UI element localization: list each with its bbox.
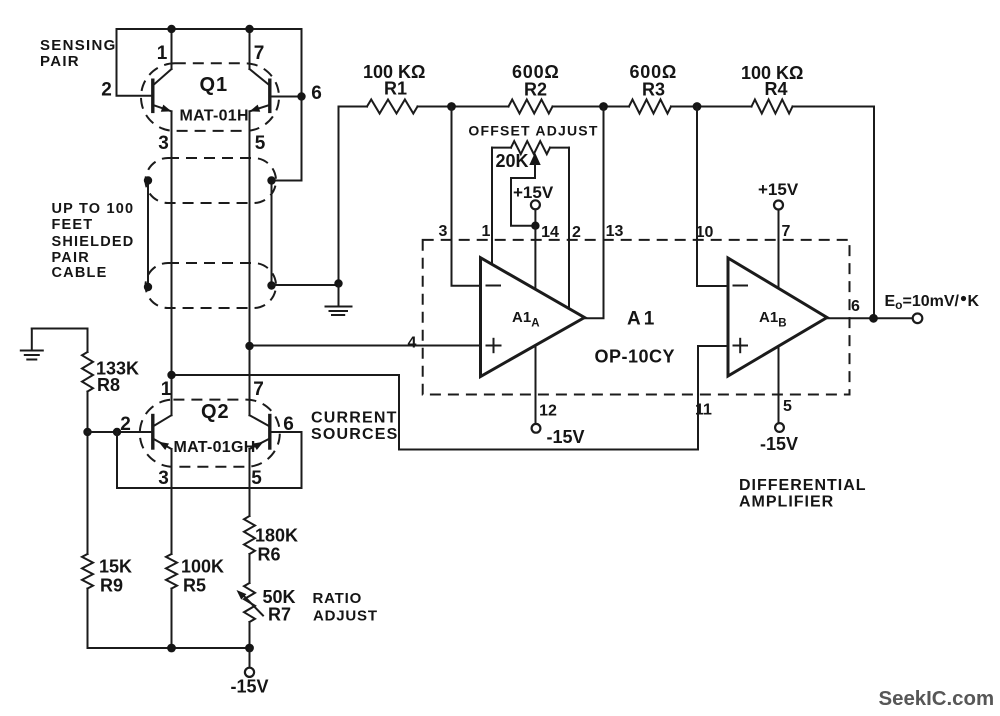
svg-text:SHIELDED: SHIELDED	[52, 234, 135, 250]
ground (shield)	[326, 284, 352, 316]
dashed box A1 OP-10CY	[423, 240, 850, 395]
svg-text:15K: 15K	[99, 557, 132, 577]
svg-text:AMPLIFIER: AMPLIFIER	[739, 494, 834, 511]
transistor Q1 left half: base bar	[151, 80, 154, 111]
junction: shield loop1 right	[267, 176, 275, 184]
junction: shield loop2 right	[267, 281, 275, 289]
transistor Q1 right half: base bar	[268, 80, 271, 111]
wire: right pair conductor (Q1 pin5 down to Q2 collector pin7)	[249, 111, 251, 415]
svg-text:5: 5	[783, 398, 792, 415]
A1A minus input symbol	[487, 285, 501, 287]
svg-text:10: 10	[696, 224, 714, 241]
transistor Q2 left: emitter stroke with arrow	[153, 439, 172, 450]
svg-text:3: 3	[158, 133, 169, 154]
svg-text:A1: A1	[627, 309, 657, 330]
svg-text:OFFSET ADJUST: OFFSET ADJUST	[468, 123, 598, 139]
svg-text:R4: R4	[765, 79, 788, 99]
transistor Q1 left: collector stroke	[153, 69, 172, 86]
junction: shield loop2 left	[144, 283, 152, 291]
junction: R8 / base node	[83, 428, 91, 436]
svg-text:CURRENT: CURRENT	[311, 410, 398, 427]
wire: rail stub to -15V terminal	[249, 648, 251, 668]
wire: pin 1 (pot left)	[491, 148, 493, 265]
wire: riser from ground node to R1 bus	[339, 107, 368, 284]
wire: R7 bottom to -15V rail	[249, 622, 251, 648]
svg-text:100K: 100K	[181, 557, 224, 577]
svg-text:RATIO: RATIO	[313, 590, 363, 607]
wire: shield to ground	[272, 284, 339, 286]
resistor R1	[367, 100, 418, 114]
resistor R8	[82, 352, 93, 392]
transistor Q2 right half: base bar	[268, 416, 271, 449]
wire: Q2 base tie	[88, 431, 153, 433]
svg-text:+15V: +15V	[758, 180, 799, 199]
svg-text:K: K	[968, 293, 980, 310]
Q1 package dashed outline	[141, 63, 279, 131]
junction: R1/R2 node (pin 3)	[447, 102, 456, 111]
resistor R3	[629, 100, 671, 114]
ground (left bias)	[21, 329, 43, 360]
wire: ground to R8 top	[32, 329, 88, 353]
wire: Q2 base loop (pin 6 to pin 2)	[117, 432, 302, 488]
wire: +15V to pin 14 node	[534, 209, 536, 225]
svg-text:13: 13	[606, 223, 624, 240]
svg-text:6: 6	[851, 298, 860, 315]
wire: pin 4 (A1A non-inverting input)	[250, 345, 481, 347]
svg-text:3: 3	[439, 223, 448, 240]
svg-text:R3: R3	[642, 80, 665, 100]
-15V terminal (bottom)	[245, 668, 254, 677]
wire: pin 14 (wiper node down to A1A)	[534, 226, 536, 290]
wire: right vertical from top bus down to cable shield	[272, 29, 302, 181]
+15V terminal (offset)	[531, 200, 540, 209]
svg-text:4: 4	[408, 335, 417, 352]
A1B minus input symbol	[734, 285, 748, 287]
svg-text:14: 14	[541, 224, 559, 241]
potentiometer 20K (offset)	[511, 141, 550, 154]
wire: Q2 pin3 emitter to R5	[171, 449, 173, 554]
svg-text:R1: R1	[384, 79, 407, 99]
svg-text:CABLE: CABLE	[52, 265, 108, 281]
junction: ground node	[334, 279, 342, 287]
transistor Q2 right: collector stroke	[250, 415, 270, 426]
svg-text:-15V: -15V	[231, 677, 269, 697]
wire: R2 to R3	[553, 106, 630, 108]
A1A plus input symbol	[487, 339, 501, 352]
svg-text:R5: R5	[183, 576, 206, 596]
wire: pin 13 / A1A output feedback	[585, 107, 604, 319]
svg-text:R9: R9	[100, 576, 123, 596]
wire: R1 to R2	[418, 106, 509, 108]
svg-text:7: 7	[254, 43, 265, 64]
svg-text:PAIR: PAIR	[40, 53, 80, 70]
wire: pin 11 (Q2 collector feedback to A1B non-inverting input)	[172, 346, 729, 450]
junction: R3/R4 node (pin 10)	[693, 102, 702, 111]
svg-text:12: 12	[539, 403, 557, 420]
svg-text:6: 6	[283, 414, 294, 435]
svg-text:+15V: +15V	[513, 183, 554, 202]
resistor R2	[509, 100, 553, 114]
+15V terminal (A1B)	[774, 201, 783, 210]
wire: R9 bottom to -15V rail	[88, 589, 250, 649]
wire: pin 10 (R3/R4 node to A1B inverting input)	[697, 107, 728, 287]
wire: A1B output	[827, 317, 913, 319]
wire: Q1 top collector bus	[117, 28, 302, 30]
junction: pin 4 node on right conductor	[245, 342, 253, 350]
svg-text:MAT-01H: MAT-01H	[180, 108, 249, 125]
svg-text:R8: R8	[97, 375, 120, 395]
svg-text:2: 2	[120, 414, 131, 435]
cable shield loop 2 (dashed)	[146, 263, 277, 308]
-15V terminal (A1A)	[532, 424, 541, 433]
A1B plus input symbol	[734, 339, 748, 352]
svg-text:SeekIC.com: SeekIC.com	[879, 688, 995, 710]
output terminal Eo	[913, 314, 923, 324]
resistor R6	[244, 516, 255, 554]
svg-text:2: 2	[572, 224, 581, 241]
svg-text:1: 1	[157, 43, 168, 64]
svg-text:PAIR: PAIR	[52, 250, 90, 266]
svg-text:R7: R7	[268, 605, 291, 625]
wire: R3 to R4	[671, 106, 752, 108]
svg-text:Q2: Q2	[201, 401, 230, 423]
svg-text:20K: 20K	[496, 151, 529, 171]
op-amp U1 A1B triangle	[728, 258, 827, 376]
svg-text:ADJUST: ADJUST	[313, 608, 378, 625]
svg-text:7: 7	[253, 379, 264, 400]
svg-text:SOURCES: SOURCES	[311, 426, 399, 443]
wire: Q1 right collector riser (pin 7)	[249, 29, 251, 69]
svg-text:1: 1	[482, 223, 491, 240]
cable shield loop 1 (dashed)	[146, 158, 277, 203]
wire: shield left drain	[147, 181, 149, 288]
svg-text:6: 6	[311, 83, 322, 104]
op-amp U1 A1A triangle	[481, 258, 585, 377]
transistor Q1 right: collector stroke	[250, 69, 270, 86]
resistor R9	[82, 554, 93, 589]
junction: node at left conductor / pin 11 wire	[167, 371, 175, 379]
wire: R6 to R7	[249, 554, 251, 583]
transistor Q2 right: emitter stroke with arrow	[250, 439, 270, 450]
svg-text:3: 3	[158, 468, 169, 489]
wire: pin 12 to -15V	[535, 345, 537, 424]
junction: node pin6	[297, 92, 305, 100]
resistor R5	[166, 554, 177, 589]
svg-text:Q1: Q1	[200, 74, 229, 96]
wire: pin 3 (R1/R2 node to A1A inverting input)	[452, 107, 481, 286]
wire: Q1 left collector riser (pin 1)	[171, 29, 173, 69]
junction: pin 14 node	[531, 222, 539, 230]
junction: base loop node	[113, 428, 121, 436]
wire: left pair conductor (Q1 pin3 down to Q2 collector pin1)	[171, 111, 173, 415]
wire: Q1 base left drop (pin 2)	[117, 29, 153, 96]
svg-text:DIFFERENTIAL: DIFFERENTIAL	[739, 477, 867, 494]
svg-text:R6: R6	[258, 545, 281, 565]
transistor Q2 left: collector stroke	[153, 415, 172, 426]
junction: node pin7 top	[245, 25, 253, 33]
pot wiper arrow	[529, 153, 540, 166]
wire: R8 bottom to R9 top	[87, 392, 89, 555]
wire: Q2 pin5 emitter to R6	[249, 449, 251, 516]
svg-text:7: 7	[782, 223, 791, 240]
transistor Q2 left half: base bar	[151, 416, 154, 449]
svg-text:MAT-01GH: MAT-01GH	[174, 439, 256, 456]
svg-text:5: 5	[251, 468, 262, 489]
wire: pin 5 to -15V	[778, 346, 780, 423]
junction: shield loop1 left	[144, 176, 152, 184]
svg-text:-15V: -15V	[547, 427, 585, 447]
junction: R5 on -15V rail	[167, 644, 176, 653]
transistor Q1 left: emitter stroke with arrow	[153, 105, 172, 112]
wire: Q1 right base to pin 6 node	[270, 96, 302, 98]
svg-text:OP-10CY: OP-10CY	[595, 347, 676, 367]
junction: R7 on -15V rail	[245, 644, 254, 653]
resistor R4	[752, 100, 793, 114]
junction: node pin1 top	[167, 25, 175, 33]
R7 adjust arrow	[242, 594, 263, 616]
Q2 package dashed outline	[140, 400, 280, 467]
junction: output feedback node	[869, 314, 878, 323]
wire: shield right drain	[271, 181, 273, 286]
wire: pot wiper to +15V node	[511, 165, 535, 226]
svg-text:180K: 180K	[255, 526, 298, 546]
wire: pin 2 (pot right)	[568, 148, 570, 309]
wire: pin 7 +15V supply	[778, 210, 780, 289]
svg-text:SENSING: SENSING	[40, 37, 117, 54]
transistor Q1 right: emitter stroke with arrow	[250, 105, 270, 112]
svg-text:1: 1	[161, 379, 172, 400]
wire: R5 bottom	[171, 589, 173, 649]
svg-text:FEET: FEET	[52, 217, 94, 233]
junction: R2/R3 node (pin 13)	[599, 102, 608, 111]
svg-text:-15V: -15V	[760, 434, 798, 454]
svg-text:R2: R2	[524, 80, 547, 100]
-15V terminal (A1B)	[775, 423, 784, 432]
svg-text:5: 5	[255, 133, 266, 154]
svg-text:2: 2	[101, 80, 112, 101]
wire: R4 to output feedback drop	[793, 107, 875, 319]
svg-text:UP TO 100: UP TO 100	[52, 201, 135, 217]
rheostat R7 50K	[244, 583, 255, 622]
